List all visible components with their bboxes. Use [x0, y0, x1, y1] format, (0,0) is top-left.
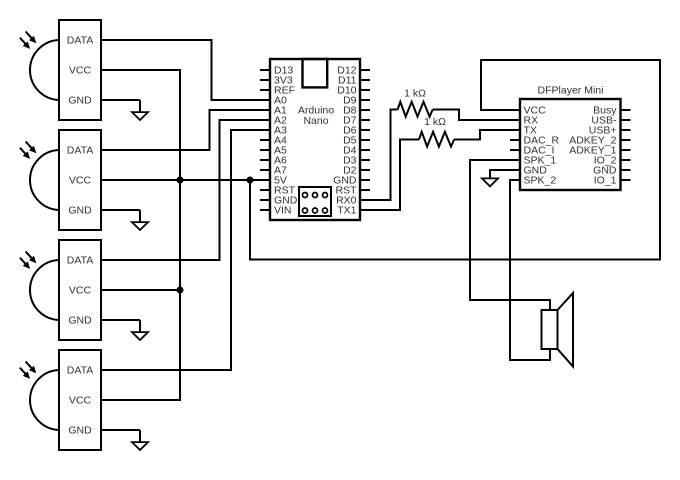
wire DFPlayer SPK_2 to speaker bottom [510, 180, 550, 360]
photo sensor 1 [20, 20, 101, 120]
wire sensor3 DATA to Arduino A2 [101, 120, 260, 260]
wire sensor1 DATA to Arduino A0 [101, 40, 260, 100]
ground sensor4 [101, 429, 140, 431]
Arduino left pin labels [274, 65, 298, 217]
DFPlayer left pin stubs DAC_R DAC_I [510, 139, 520, 141]
svg-text:VIN: VIN [274, 205, 292, 217]
wire DFPlayer VCC loop to 5V node [250, 60, 660, 260]
svg-text:1 kΩ: 1 kΩ [404, 87, 426, 99]
svg-text:TX1: TX1 [337, 205, 356, 217]
photo sensor 3 [20, 240, 101, 340]
photo sensor 4 [20, 350, 101, 450]
wire Arduino TX1 to resistor R2 [370, 140, 419, 211]
speaker LS1 [542, 293, 574, 367]
wire sensor2 VCC to Arduino 5V [101, 179, 260, 181]
IC U1 Arduino Nano body [270, 59, 360, 220]
ground sensor3 [101, 319, 140, 321]
svg-text:Nano: Nano [303, 115, 328, 127]
ground sensor1 [101, 99, 140, 101]
Arduino right pin stubs [360, 70, 370, 210]
ground sensor2 [101, 209, 140, 211]
wire VCC bus sensor1 to sensor4 [101, 70, 180, 400]
DFPlayer left pin labels [524, 105, 560, 187]
wire Arduino RX0 to resistor R1 [370, 110, 398, 201]
Arduino ICSP header [299, 187, 331, 216]
node junction 5V loop [247, 177, 254, 184]
node junction VCC bus sensor3 [177, 287, 184, 294]
photo sensor 2 [20, 130, 101, 230]
wire resistor R1 to DFPlayer RX [433, 110, 520, 121]
Arduino left pin stubs [260, 70, 270, 210]
wire resistor R2 to DFPlayer TX [454, 130, 520, 140]
wire sensor3 VCC to VCC bus [101, 289, 180, 291]
Arduino right pin labels [333, 65, 357, 217]
wire DFPlayer GND [490, 170, 520, 178]
DFPlayer right pin labels [569, 105, 617, 187]
svg-text:1 kΩ: 1 kΩ [424, 116, 446, 128]
ground DFPlayer [482, 178, 498, 186]
svg-text:SPK_2: SPK_2 [524, 175, 557, 187]
wire sensor4 DATA to Arduino A3 [101, 130, 260, 370]
DFPlayer right pin stubs [621, 110, 631, 180]
node junction VCC bus sensor1 [177, 177, 184, 184]
wire DFPlayer SPK_1 to speaker top [470, 160, 550, 310]
wire sensor2 DATA to Arduino A1 [101, 110, 260, 150]
resistor R1 [398, 102, 433, 117]
svg-text:IO_1: IO_1 [594, 175, 617, 187]
IC U2 DFPlayer Mini body [520, 99, 621, 190]
svg-text:DFPlayer Mini: DFPlayer Mini [538, 85, 604, 97]
Arduino USB notch [303, 59, 328, 87]
resistor R2 [419, 132, 454, 147]
